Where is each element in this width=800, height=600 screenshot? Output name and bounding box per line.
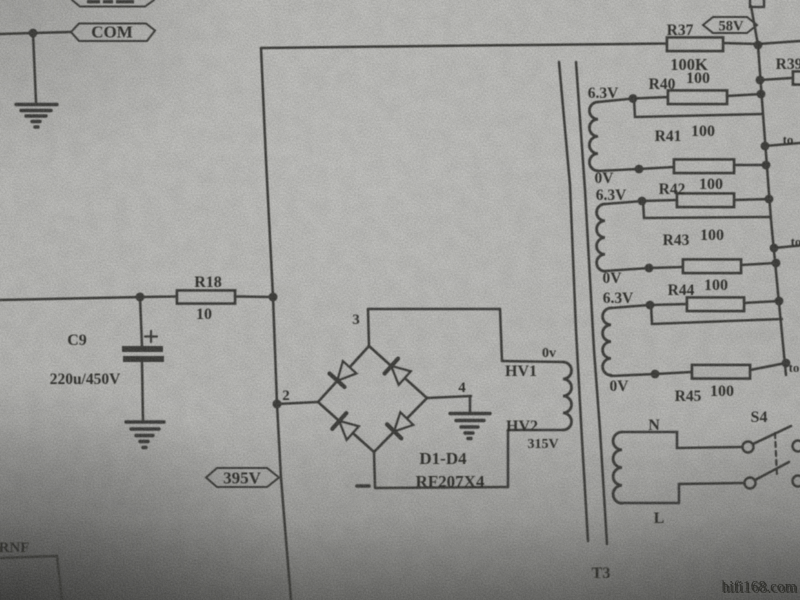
wire W3 top tap xyxy=(611,304,687,308)
right vertical rail xyxy=(751,6,786,375)
switch S4 pole 1 contact xyxy=(743,442,754,453)
junction dot to-wire xyxy=(761,142,770,151)
junction dot R40 rail xyxy=(757,90,766,99)
resistor R44 xyxy=(668,277,744,311)
resistor R39 (cut at edge) xyxy=(776,56,800,85)
junction dot R18 left xyxy=(136,293,145,302)
bypass wire W3 top to rail xyxy=(651,305,782,324)
ground symbol G3 xyxy=(450,414,490,439)
connector box at top edge xyxy=(750,0,764,7)
watermark hifi168.com xyxy=(721,579,798,598)
junction dot R41 rail xyxy=(762,161,771,170)
resistor R42 xyxy=(659,176,734,207)
wire R18 to rail xyxy=(235,295,273,298)
switch S4 pole 2 blade xyxy=(755,462,789,480)
wire W1 bottom tap (0V) xyxy=(598,167,674,171)
resistor R41 xyxy=(655,123,734,173)
switch S4 right contact 1 xyxy=(793,441,800,452)
junction dot W2 top xyxy=(638,197,647,206)
junction dot W1 top xyxy=(629,94,638,103)
resistor R18 xyxy=(177,274,235,323)
bypass wire W2 top to rail xyxy=(643,201,771,218)
diode D1 (top-left arm) xyxy=(330,361,357,387)
junction dot W3 bottom xyxy=(651,370,660,379)
junction dot to-wire 2 xyxy=(770,244,779,253)
junction dot R44 rail xyxy=(775,297,784,306)
wire down to HV1 xyxy=(500,309,502,361)
wire HV2 to coil xyxy=(508,429,563,432)
switch S4 pole 1 blade xyxy=(753,426,791,444)
winding W3 coil xyxy=(603,308,611,375)
diode D2 (top-right arm) xyxy=(385,359,411,385)
switch S4 pole 2 contact xyxy=(745,478,756,489)
junction dot W2 bottom xyxy=(645,264,654,273)
net flag 395V xyxy=(206,468,279,488)
wire R43 to rail xyxy=(741,263,776,265)
switch S4 link (dashed) xyxy=(775,433,777,476)
resistor R40 xyxy=(649,70,727,104)
junction dot R39 xyxy=(756,76,765,85)
wire R40 to rail xyxy=(727,94,761,96)
diode D3 (bottom-left arm) xyxy=(332,413,358,440)
wire R44 to rail xyxy=(744,301,779,303)
net flag COM xyxy=(71,23,155,42)
winding W1 coil xyxy=(589,102,598,171)
wire bridge right to node 4 xyxy=(427,396,471,398)
transformer core line left xyxy=(559,62,588,541)
wire bridge top to node 3 corner xyxy=(368,309,369,346)
wire HV1 to coil xyxy=(502,361,563,362)
wire to exit right (to) xyxy=(765,143,800,146)
partial net flag (cut at top edge) xyxy=(72,0,154,7)
wire node 4 to ground xyxy=(469,397,472,412)
main vertical rail 395V xyxy=(261,48,291,600)
wire W4 top tap to switch xyxy=(622,432,742,448)
wire W3 bottom tap (0V) xyxy=(611,372,692,376)
junction dot W1 bottom xyxy=(635,165,644,174)
junction dot R42 rail xyxy=(765,195,774,204)
diode D4 (bottom-right arm) xyxy=(387,412,413,438)
junction dot R43 rail xyxy=(772,259,781,268)
junction dot node COM xyxy=(29,29,38,38)
main top wire to right edge xyxy=(261,44,668,49)
winding W2 coil xyxy=(597,204,605,271)
wire R42 to rail xyxy=(734,199,769,200)
transformer core line right xyxy=(576,62,607,544)
bridge rectifier D1-D4 diamond xyxy=(318,346,427,452)
junction dot node 2 xyxy=(273,400,282,409)
junction dot R45 rail xyxy=(782,359,791,368)
resistor R37 xyxy=(667,22,723,74)
ground symbol G2 xyxy=(126,422,164,448)
wire W2 top tap xyxy=(605,200,677,204)
switch S4 right contact 2 xyxy=(793,476,800,487)
wire R45 to rail end xyxy=(750,363,786,370)
junction dot R18 right on rail xyxy=(269,293,278,302)
junction dot W3 top xyxy=(646,301,655,310)
wire R41 to rail xyxy=(734,164,766,167)
wire node 3 horizontal xyxy=(368,308,500,311)
wire bridge bottom to HV2 riser xyxy=(375,487,508,488)
bypass wire W1 top to rail xyxy=(634,99,763,117)
transformer HV primary coil xyxy=(563,362,572,430)
wire junction to C9 xyxy=(140,297,142,346)
box RNF corner xyxy=(0,556,62,600)
wire from left edge to COM flag xyxy=(0,32,70,34)
resistor R43 xyxy=(663,227,741,273)
wire to exit right 2 (to) xyxy=(774,246,800,249)
wire left edge to R18 xyxy=(0,297,177,301)
wire junction to ground xyxy=(33,33,36,102)
minus tick xyxy=(357,484,369,488)
wire to R39 xyxy=(760,78,800,81)
junction dot rail/top wire xyxy=(754,41,763,50)
winding W4 (mains) coil xyxy=(613,432,622,503)
net flag 58V xyxy=(703,17,757,35)
wire C9 to ground xyxy=(142,362,143,421)
wire W1 top tap xyxy=(598,97,668,102)
wire riser up to HV2 xyxy=(507,430,510,487)
wire bridge bottom down xyxy=(374,452,375,487)
capacitor C9 (polarized) xyxy=(50,331,164,388)
wire W4 bottom tap to switch xyxy=(622,483,744,503)
ground symbol G1 xyxy=(16,105,57,128)
wire W2 bottom tap (0V) xyxy=(605,267,683,271)
wire node 2 to bridge xyxy=(277,402,318,404)
resistor R45 xyxy=(675,365,750,405)
